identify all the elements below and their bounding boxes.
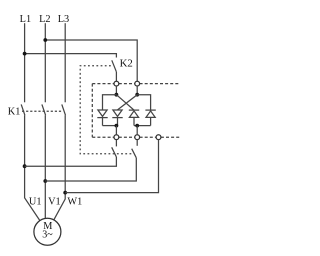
wire contact to L1 return	[25, 157, 117, 166]
wire J1 to diode V1	[103, 95, 117, 110]
wire rail 1 to terminal B1	[115, 126, 117, 135]
junction dot J2	[135, 93, 139, 97]
wire J2 to diode V2 (diagonal)	[118, 95, 138, 110]
wire L3 vertical lower to motor W1	[54, 115, 65, 220]
svg-text:3~: 3~	[42, 229, 53, 240]
wire bottom rail V1-V2	[103, 125, 118, 127]
wire L2 tap to module input T2	[45, 40, 137, 81]
svg-text:L1: L1	[20, 14, 31, 25]
wire L1 vertical upper	[24, 23, 26, 102]
junction dot rail 2	[135, 124, 139, 128]
wire T2 to node J2	[136, 86, 138, 95]
contact K2 pole 3 blade	[132, 149, 137, 158]
inner enclosure bottom edge	[92, 136, 180, 138]
junction dot J1	[115, 93, 119, 97]
terminal B2	[135, 135, 140, 140]
motor M1 circle	[34, 218, 61, 245]
contact K2 blade	[112, 60, 117, 72]
terminal B1	[114, 135, 119, 140]
terminal T1	[114, 81, 119, 86]
wire B2 to contact	[136, 140, 138, 146]
svg-text:V1: V1	[48, 197, 61, 208]
junction dot L1 tap	[23, 52, 27, 56]
junction dot L1 return	[23, 164, 27, 168]
inner dash-dot enclosure left edge	[91, 84, 93, 138]
wire L2 vertical lower to motor V1	[44, 115, 46, 218]
contactor K1 pole 2 blade	[42, 104, 46, 115]
diode V4 (cathode up)	[145, 110, 155, 126]
junction dot rail 1	[115, 124, 119, 128]
svg-text:W1: W1	[67, 197, 82, 208]
svg-text:U1: U1	[29, 197, 42, 208]
brake-module outer dotted boundary	[80, 66, 133, 154]
wire L1 vertical lower to motor U1	[25, 115, 40, 220]
svg-text:K1: K1	[8, 106, 21, 117]
wire bottom rail V3-V4	[134, 125, 151, 127]
wire contact to L2 return	[45, 158, 136, 181]
wire T1 to node J1	[115, 86, 117, 95]
terminal T2	[135, 81, 140, 86]
wire L3 vertical upper	[64, 23, 66, 102]
svg-text:K2: K2	[120, 58, 133, 70]
wire B3 to L3 return	[65, 140, 158, 193]
wire J2 to diode V4	[137, 95, 150, 110]
svg-text:L3: L3	[58, 14, 69, 25]
contactor K1 linkage (dashed)	[22, 110, 62, 112]
terminal B3	[156, 135, 161, 140]
junction dot L2 tap	[43, 38, 47, 42]
wire J1 to diode V3 (diagonal)	[116, 95, 134, 110]
wire L1 tap to contact K2	[25, 54, 117, 58]
wire rail 2 to terminal B2	[136, 126, 138, 135]
contactor K1 pole 3 blade	[62, 104, 66, 115]
junction dot L3 return	[63, 191, 67, 195]
contactor K1 pole 1 blade	[21, 104, 25, 115]
diode V2 (cathode down)	[112, 110, 122, 126]
wire B1 to contact	[115, 140, 117, 147]
contact K2 pole 2 blade	[112, 147, 117, 157]
wire L2 vertical upper	[44, 23, 46, 102]
diode V1 (cathode down)	[97, 110, 107, 126]
diode V3 (cathode up)	[129, 110, 139, 126]
svg-text:L2: L2	[39, 14, 50, 25]
junction dot L2 return	[43, 179, 47, 183]
wire K2 to terminal T1	[115, 72, 117, 81]
inner enclosure top edge	[92, 83, 179, 85]
